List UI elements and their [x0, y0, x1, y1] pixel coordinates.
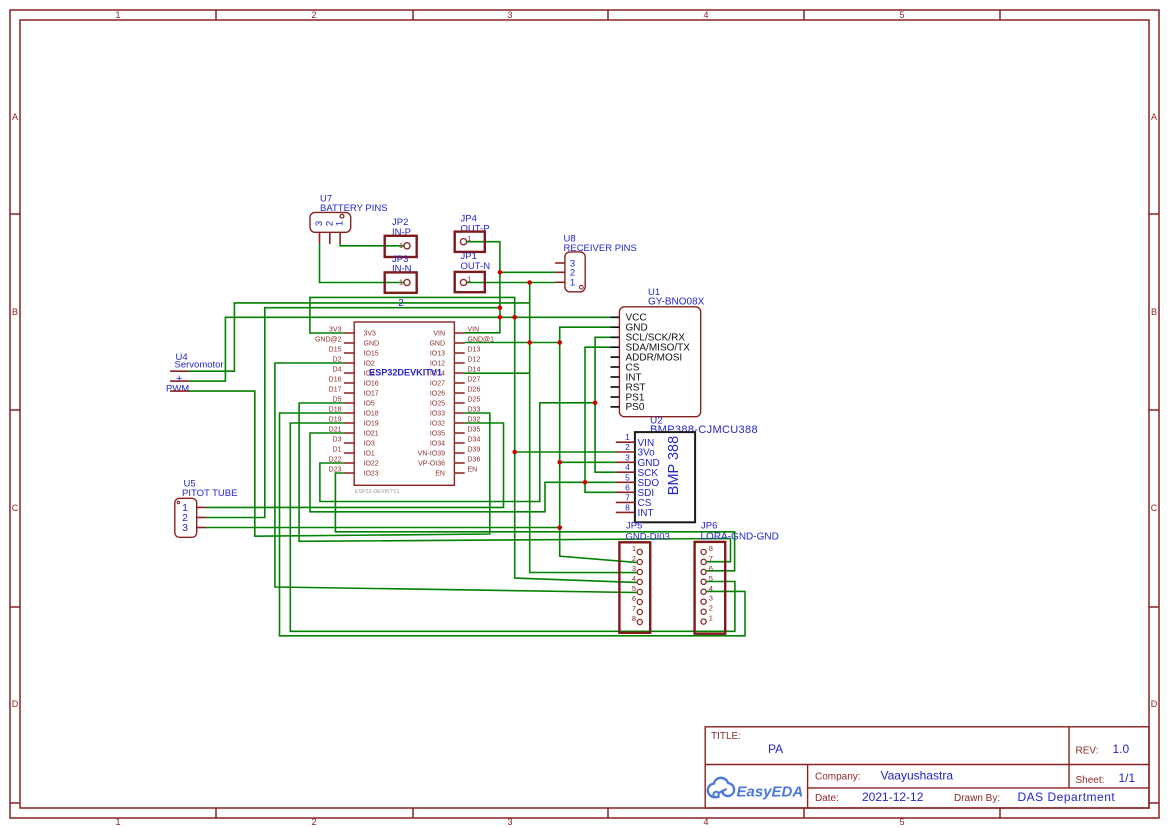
svg-text:IO34: IO34: [430, 441, 445, 448]
wire 3Vo row U2: [515, 451, 616, 453]
svg-text:Date:: Date:: [815, 793, 839, 804]
svg-text:IO5: IO5: [364, 401, 375, 408]
svg-text:D18: D18: [329, 407, 342, 414]
svg-text:7: 7: [709, 554, 713, 563]
svg-text:IO26: IO26: [430, 391, 445, 398]
svg-text:3V3: 3V3: [364, 331, 377, 338]
IC U1 GY-BNO08X: [611, 287, 705, 417]
svg-text:2: 2: [398, 298, 404, 309]
svg-text:B: B: [1151, 307, 1157, 317]
svg-text:JP6: JP6: [701, 521, 717, 532]
svg-text:5: 5: [625, 472, 630, 482]
svg-text:D25: D25: [468, 397, 481, 404]
svg-text:IO13: IO13: [430, 351, 445, 358]
svg-text:2: 2: [311, 10, 316, 20]
svg-text:IO25: IO25: [430, 401, 445, 408]
svg-text:D35: D35: [468, 427, 481, 434]
svg-text:VIN: VIN: [468, 327, 480, 334]
connector JP1 OUT-N: [455, 251, 490, 292]
connector JP2 IN-P: [385, 217, 417, 257]
junction VCC row crossing 2: [512, 315, 517, 320]
svg-text:PITOT TUBE: PITOT TUBE: [182, 488, 237, 499]
svg-text:EasyEDA: EasyEDA: [737, 784, 804, 801]
wire U2 GND row: [560, 461, 616, 463]
wire battery pin3 to JP3: [320, 244, 404, 283]
connector U7 BATTERY PINS: [310, 194, 388, 244]
svg-text:2: 2: [311, 817, 316, 827]
svg-text:D34: D34: [468, 437, 481, 444]
svg-text:Drawn By:: Drawn By:: [954, 793, 1000, 804]
junction SDO row: [583, 480, 588, 485]
svg-text:D17: D17: [329, 387, 342, 394]
svg-text:1: 1: [709, 614, 713, 623]
svg-text:IO21: IO21: [364, 431, 379, 438]
svg-text:C: C: [1151, 503, 1158, 513]
svg-text:GND@2: GND@2: [315, 337, 342, 344]
connector JP4 OUT-P: [455, 214, 490, 252]
svg-text:1: 1: [632, 544, 636, 553]
svg-text:3: 3: [182, 522, 188, 534]
svg-text:IO19: IO19: [364, 421, 379, 428]
svg-text:IO27: IO27: [430, 381, 445, 388]
EasyEDA logo: [708, 778, 803, 801]
wire ESP32 D23 to JP6 pin6: [335, 473, 734, 571]
svg-text:D22: D22: [329, 457, 342, 464]
svg-text:3: 3: [709, 594, 713, 603]
svg-text:2: 2: [709, 604, 713, 613]
svg-text:Sheet:: Sheet:: [1076, 775, 1105, 786]
wire ESP32 D14 row: [465, 372, 530, 374]
svg-text:1: 1: [115, 817, 120, 827]
IC U2 BMP388-CJMCU388: [616, 416, 758, 523]
svg-text:6: 6: [625, 482, 630, 492]
junction SCL branch: [593, 401, 598, 406]
junction VCC row crossing 1: [498, 315, 503, 320]
junction 3Vo row: [512, 450, 517, 455]
svg-text:GND-DI03: GND-DI03: [626, 532, 670, 543]
svg-text:8: 8: [625, 502, 630, 512]
svg-text:IO17: IO17: [364, 391, 379, 398]
wire SCL branch to ESP32 D22: [320, 403, 595, 502]
svg-text:D13: D13: [468, 347, 481, 354]
svg-text:INT: INT: [638, 508, 654, 519]
svg-text:4: 4: [625, 462, 630, 472]
svg-text:VP-OI36: VP-OI36: [418, 461, 445, 468]
svg-text:A: A: [1151, 112, 1157, 122]
svg-text:TITLE:: TITLE:: [711, 731, 741, 742]
svg-text:D19: D19: [329, 417, 342, 424]
junction pitot GND row: [557, 525, 562, 530]
wire JP1 OUT-N to U8 pin1: [467, 282, 555, 284]
svg-text:1: 1: [625, 432, 630, 442]
wire ESP32 GND@1 row: [465, 342, 560, 344]
junction JP4 net at U8 pin2: [498, 270, 503, 275]
svg-text:IO3: IO3: [364, 441, 375, 448]
svg-text:IO16: IO16: [364, 381, 379, 388]
svg-text:D23: D23: [329, 467, 342, 474]
svg-text:4: 4: [703, 817, 708, 827]
svg-text:PWM: PWM: [166, 384, 189, 395]
junction U2 GND row: [557, 460, 562, 465]
svg-text:IO1: IO1: [364, 451, 375, 458]
svg-text:IO33: IO33: [430, 411, 445, 418]
svg-text:IO15: IO15: [364, 351, 379, 358]
svg-text:3: 3: [507, 10, 512, 20]
svg-text:PA: PA: [768, 742, 783, 756]
wire U1 SCL to U2 SCK: [595, 337, 616, 472]
svg-text:1.0: 1.0: [1113, 742, 1130, 756]
svg-text:1: 1: [467, 234, 471, 243]
svg-text:1/1: 1/1: [1119, 771, 1136, 785]
svg-text:GND: GND: [429, 341, 445, 348]
svg-text:1: 1: [467, 275, 471, 284]
junction GND@1 row at JP1 net: [527, 340, 532, 345]
wire U1 SDA to U2 SDI: [585, 347, 616, 492]
wire U2 SDO branch to ESP32 D21: [310, 433, 616, 512]
svg-text:2: 2: [632, 554, 636, 563]
svg-text:VIN: VIN: [433, 331, 445, 338]
svg-text:BMP 388: BMP 388: [666, 436, 682, 495]
svg-text:1: 1: [335, 221, 346, 226]
svg-text:GND: GND: [364, 341, 380, 348]
svg-text:IO18: IO18: [364, 411, 379, 418]
svg-text:1: 1: [399, 278, 403, 287]
title block: [705, 727, 1149, 808]
svg-text:D21: D21: [329, 427, 342, 434]
wire JP1 net vertical to JP5 pin3: [530, 283, 637, 573]
svg-text:IO32: IO32: [430, 421, 445, 428]
svg-text:IO2: IO2: [364, 361, 375, 368]
svg-text:6: 6: [709, 564, 713, 573]
svg-text:D16: D16: [329, 377, 342, 384]
svg-text:D33: D33: [468, 407, 481, 414]
svg-text:1: 1: [399, 241, 403, 250]
wire U1 GND down to JP5 pin2: [560, 327, 637, 562]
svg-text:5: 5: [899, 817, 904, 827]
svg-text:D12: D12: [468, 357, 481, 364]
svg-text:D27: D27: [468, 377, 481, 384]
wire JP4 OUT-P to ESP32 VIN (net 2): [465, 242, 500, 333]
svg-text:4: 4: [632, 574, 636, 583]
svg-text:VN-IO39: VN-IO39: [418, 451, 445, 458]
svg-text:4: 4: [703, 10, 708, 20]
svg-text:DAS Department: DAS Department: [1018, 790, 1116, 804]
IC U3 ESP32DEVKITV1: [315, 322, 494, 495]
junction GND@1 row at GND vertical: [557, 340, 562, 345]
svg-text:2021-12-12: 2021-12-12: [862, 790, 924, 804]
junction net 2 end: [498, 305, 503, 310]
svg-text:3V3: 3V3: [329, 327, 342, 334]
wire ESP32 D18 to JP6 pin4: [280, 413, 746, 636]
svg-text:3: 3: [625, 452, 630, 462]
wire ESP32 D19 to JP6 pin5: [290, 423, 735, 631]
svg-text:EN: EN: [468, 467, 478, 474]
svg-text:7: 7: [625, 492, 630, 502]
wire net 2 from pitot pin2: [206, 308, 500, 518]
wire ESP32 3V3 to JP5 pin4 chain: [310, 297, 637, 582]
svg-text:D3: D3: [333, 437, 342, 444]
connector JP5 GND-DI03: [619, 521, 669, 633]
svg-text:IO22: IO22: [364, 461, 379, 468]
svg-text:5: 5: [899, 10, 904, 20]
connector U4 Servomotor: [166, 352, 224, 395]
connector JP6 LORA-GND-GND: [695, 521, 779, 634]
wire servomotor PWM to ESP32 D33: [189, 391, 490, 536]
wire servomotor pin1 to JP1 net: [189, 303, 530, 371]
svg-text:GY-BNO08X: GY-BNO08X: [648, 297, 705, 308]
svg-text:3: 3: [632, 564, 636, 573]
svg-text:GND@1: GND@1: [468, 337, 495, 344]
svg-text:8: 8: [632, 614, 636, 623]
svg-text:D39: D39: [468, 447, 481, 454]
wire ESP32 D32 to pitot pin1: [206, 423, 504, 507]
wire battery pin1 to JP2: [340, 244, 404, 246]
svg-text:IO12: IO12: [430, 361, 445, 368]
svg-text:D15: D15: [329, 347, 342, 354]
svg-text:3: 3: [507, 817, 512, 827]
wire U8 pin2 row: [500, 271, 555, 273]
svg-text:D36: D36: [468, 457, 481, 464]
svg-text:1: 1: [570, 278, 575, 289]
connector U5 PITOT TUBE: [175, 479, 238, 538]
wire pitot pin3 GND row: [206, 527, 560, 529]
svg-text:5: 5: [632, 584, 636, 593]
connector JP3 IN-N: [385, 254, 417, 293]
svg-text:IO35: IO35: [430, 431, 445, 438]
svg-text:ESP32DEVKITV1: ESP32DEVKITV1: [369, 368, 442, 378]
svg-text:EN: EN: [435, 471, 445, 478]
wire servomotor plus to U1 VCC: [189, 317, 611, 381]
wire ESP32 D5 to JP6 pin7: [299, 403, 730, 562]
svg-text:Servomotor: Servomotor: [175, 360, 224, 371]
svg-text:JP5: JP5: [626, 521, 642, 532]
svg-text:D32: D32: [468, 417, 481, 424]
svg-text:1: 1: [115, 10, 120, 20]
svg-text:5: 5: [709, 574, 713, 583]
svg-text:BMP388-CJMCU388: BMP388-CJMCU388: [650, 424, 758, 436]
svg-text:6: 6: [632, 594, 636, 603]
svg-text:2: 2: [625, 442, 630, 452]
svg-text:C: C: [12, 503, 19, 513]
svg-text:Company:: Company:: [815, 772, 861, 783]
svg-text:D4: D4: [333, 367, 342, 374]
svg-text:4: 4: [709, 584, 713, 593]
svg-text:D14: D14: [468, 367, 481, 374]
junction JP1 net at U8 pin1: [527, 280, 532, 285]
svg-text:REV:: REV:: [1076, 746, 1099, 757]
svg-text:D2: D2: [333, 357, 342, 364]
svg-text:ESP32-DEVKITV1: ESP32-DEVKITV1: [355, 489, 400, 495]
svg-text:D: D: [1151, 699, 1158, 709]
svg-text:D26: D26: [468, 387, 481, 394]
svg-text:7: 7: [632, 604, 636, 613]
svg-text:8: 8: [709, 544, 713, 553]
svg-text:OUT-N: OUT-N: [461, 261, 491, 272]
svg-text:A: A: [12, 112, 18, 122]
svg-text:D1: D1: [333, 447, 342, 454]
svg-text:D: D: [12, 699, 19, 709]
svg-text:D5: D5: [333, 397, 342, 404]
svg-text:IO23: IO23: [364, 471, 379, 478]
svg-text:PS0: PS0: [626, 402, 645, 413]
connector U8 RECEIVER PINS: [555, 234, 637, 292]
svg-text:Vaayushastra: Vaayushastra: [881, 769, 954, 783]
svg-text:B: B: [12, 307, 18, 317]
wire ESP32 D2 to JP5 pin5: [275, 363, 637, 593]
